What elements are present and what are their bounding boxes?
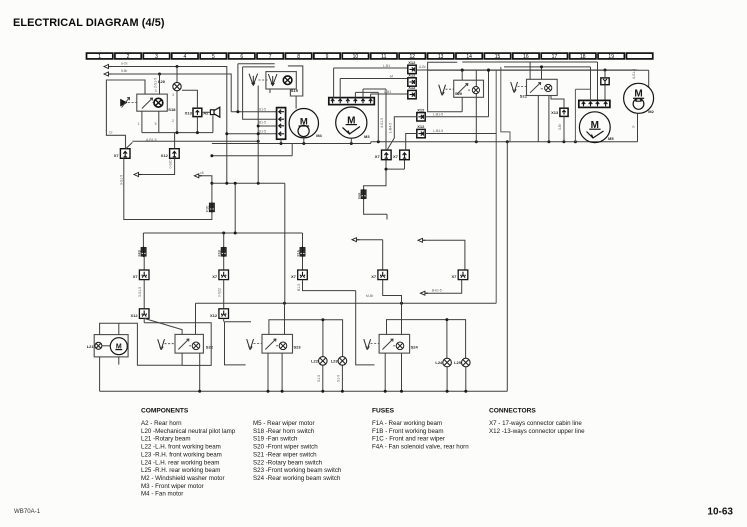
svg-text:X7: X7 — [371, 274, 377, 279]
svg-text:L24 -L.H. rear working beam: L24 -L.H. rear working beam — [141, 459, 219, 466]
svg-text:5: 5 — [212, 54, 215, 60]
svg-text:L-B1-5: L-B1-5 — [433, 112, 443, 116]
svg-text:M2 - Windshield washer motor: M2 - Windshield washer motor — [141, 475, 225, 482]
svg-text:S1-5: S1-5 — [317, 375, 321, 382]
svg-text:c5: c5 — [200, 171, 204, 175]
svg-text:A-Br: A-Br — [419, 65, 427, 69]
svg-text:S24: S24 — [411, 345, 419, 350]
svg-text:X7: X7 — [212, 274, 218, 279]
svg-text:-M: -M — [389, 74, 393, 78]
svg-text:F4B: F4B — [137, 250, 141, 257]
svg-text:X13: X13 — [185, 111, 193, 116]
svg-text:A-B1-5: A-B1-5 — [146, 138, 157, 142]
svg-text:CONNECTORS: CONNECTORS — [489, 408, 536, 415]
svg-text:ELECTRICAL DIAGRAM (4/5): ELECTRICAL DIAGRAM (4/5) — [13, 17, 165, 29]
svg-text:2: 2 — [127, 54, 130, 60]
svg-text:X12: X12 — [408, 73, 416, 78]
svg-text:L22 -L.H. front working beam: L22 -L.H. front working beam — [141, 444, 221, 451]
svg-text:S23: S23 — [294, 345, 302, 350]
svg-text:S19 -Fan switch: S19 -Fan switch — [253, 436, 298, 443]
svg-text:L23: L23 — [331, 359, 339, 364]
svg-text:3: 3 — [172, 93, 174, 97]
svg-text:X12: X12 — [161, 153, 169, 158]
svg-text:X12 -13-ways connector upper l: X12 -13-ways connector upper line — [489, 428, 585, 435]
svg-text:M2: M2 — [648, 109, 654, 114]
svg-text:M-Br: M-Br — [366, 294, 374, 298]
svg-text:16: 16 — [523, 54, 529, 60]
svg-text:X12: X12 — [417, 124, 425, 129]
svg-text:B-Er-5: B-Er-5 — [432, 289, 442, 293]
svg-text:2: 2 — [172, 119, 174, 123]
svg-text:M4: M4 — [316, 133, 322, 138]
svg-text:S1-5: S1-5 — [337, 375, 341, 382]
svg-text:M3: M3 — [364, 134, 370, 139]
svg-text:M4 - Fan motor: M4 - Fan motor — [141, 491, 183, 498]
svg-text:9: 9 — [326, 54, 329, 60]
svg-text:8: 8 — [297, 54, 300, 60]
svg-text:F1A - Rear working beam: F1A - Rear working beam — [372, 420, 442, 427]
svg-text:0-S20: 0-S20 — [169, 159, 173, 168]
svg-text:S18 -Rear horn switch: S18 -Rear horn switch — [253, 428, 315, 435]
svg-text:a-2x: a-2x — [121, 62, 128, 66]
svg-text:3-S1-5: 3-S1-5 — [138, 287, 142, 297]
svg-text:S1-5: S1-5 — [259, 107, 266, 111]
svg-text:L-B1: L-B1 — [383, 64, 390, 68]
svg-text:A2 - Rear horn: A2 - Rear horn — [141, 420, 182, 427]
svg-text:13: 13 — [438, 54, 444, 60]
svg-text:X12: X12 — [210, 313, 218, 318]
svg-text:3-Er: 3-Er — [558, 123, 562, 130]
svg-text:X7: X7 — [393, 154, 399, 159]
svg-text:4-S1-5: 4-S1-5 — [632, 69, 636, 79]
svg-text:F1B - Front working beam: F1B - Front working beam — [372, 428, 444, 435]
svg-text:X7: X7 — [451, 274, 457, 279]
svg-text:2-S1-5: 2-S1-5 — [154, 78, 158, 88]
svg-text:X7: X7 — [291, 274, 297, 279]
svg-text:S21 -Rear wiper switch: S21 -Rear wiper switch — [253, 451, 317, 458]
svg-text:WB70A-1: WB70A-1 — [14, 508, 41, 515]
svg-text:S22: S22 — [206, 344, 214, 349]
svg-text:L25: L25 — [454, 360, 462, 365]
svg-text:X13: X13 — [551, 110, 559, 115]
svg-text:F1B: F1B — [218, 250, 222, 257]
svg-text:FUSES: FUSES — [372, 408, 395, 415]
svg-text:X7: X7 — [114, 153, 120, 158]
svg-text:F4A: F4A — [357, 192, 361, 199]
svg-text:1: 1 — [138, 122, 140, 126]
svg-text:S19: S19 — [291, 88, 299, 93]
svg-text:5: 5 — [155, 122, 157, 126]
svg-text:15: 15 — [495, 54, 501, 60]
svg-text:M5: M5 — [608, 136, 614, 141]
svg-text:S20 -Front wiper switch: S20 -Front wiper switch — [253, 444, 318, 451]
svg-text:X12: X12 — [130, 313, 138, 318]
svg-text:10: 10 — [353, 54, 359, 60]
svg-text:11: 11 — [381, 54, 386, 60]
svg-text:6: 6 — [240, 54, 243, 60]
svg-text:S18: S18 — [168, 107, 176, 112]
svg-text:S23 -Front working beam switch: S23 -Front working beam switch — [253, 467, 342, 474]
svg-text:19: 19 — [608, 54, 614, 60]
svg-text:L-B4-5: L-B4-5 — [388, 123, 392, 133]
svg-text:B1-5: B1-5 — [297, 284, 301, 291]
svg-text:18: 18 — [580, 54, 586, 60]
svg-text:10-63: 10-63 — [707, 507, 733, 518]
svg-text:S22 -Rotary beam switch: S22 -Rotary beam switch — [253, 459, 323, 466]
svg-text:L22: L22 — [311, 359, 319, 364]
svg-text:L-B4-5: L-B4-5 — [433, 129, 443, 133]
svg-text:S24 -Rear working beam switch: S24 -Rear working beam switch — [253, 475, 341, 482]
svg-text:COMPONENTS: COMPONENTS — [141, 408, 189, 415]
svg-text:5-Br: 5-Br — [121, 69, 128, 73]
svg-text:M5 - Rear wiper motor: M5 - Rear wiper motor — [253, 420, 315, 427]
svg-text:L21 -Rotary beam: L21 -Rotary beam — [141, 436, 191, 443]
svg-text:Cr: Cr — [109, 131, 113, 135]
svg-text:L-B1: L-B1 — [384, 90, 391, 94]
svg-text:X7: X7 — [133, 274, 139, 279]
svg-text:X12: X12 — [408, 60, 416, 65]
svg-text:L21: L21 — [87, 344, 95, 349]
svg-text:3-S1-5: 3-S1-5 — [119, 175, 123, 185]
svg-text:14: 14 — [466, 54, 472, 60]
svg-text:F4A - Fan solenoid valve, rea: F4A - Fan solenoid valve, rear horn — [372, 444, 469, 451]
svg-text:4: 4 — [184, 54, 187, 60]
svg-text:17: 17 — [552, 54, 558, 60]
svg-text:S1-5: S1-5 — [259, 129, 266, 133]
svg-text:F1C - Front and rear wiper: F1C - Front and rear wiper — [372, 436, 445, 443]
svg-text:B1-5: B1-5 — [259, 121, 266, 125]
svg-text:L20 -Mechanical neutral pilot: L20 -Mechanical neutral pilot lamp — [141, 428, 236, 435]
svg-text:L25 -R.H. rear working beam: L25 -R.H. rear working beam — [141, 467, 220, 474]
svg-text:X12: X12 — [408, 85, 416, 90]
svg-text:M3 - Front wiper motor: M3 - Front wiper motor — [141, 483, 204, 490]
svg-text:X7: X7 — [375, 154, 381, 159]
svg-text:S20: S20 — [455, 91, 463, 96]
svg-text:4-S1-5: 4-S1-5 — [380, 118, 384, 128]
svg-text:F1A: F1A — [296, 250, 300, 257]
svg-text:L24: L24 — [435, 360, 443, 365]
svg-text:L23 -R.H. front working beam: L23 -R.H. front working beam — [141, 451, 222, 458]
svg-text:3-: 3- — [632, 125, 636, 128]
svg-text:X7 - 17-ways connector cabin: X7 - 17-ways connector cabin line — [489, 420, 582, 427]
svg-text:7: 7 — [269, 54, 272, 60]
svg-text:3: 3 — [155, 89, 157, 93]
svg-text:3: 3 — [155, 54, 158, 60]
svg-text:S21: S21 — [520, 94, 528, 99]
svg-text:0-S22: 0-S22 — [218, 288, 222, 297]
svg-text:X12: X12 — [417, 107, 425, 112]
svg-text:F1C: F1C — [206, 205, 210, 212]
svg-text:1: 1 — [98, 54, 101, 60]
